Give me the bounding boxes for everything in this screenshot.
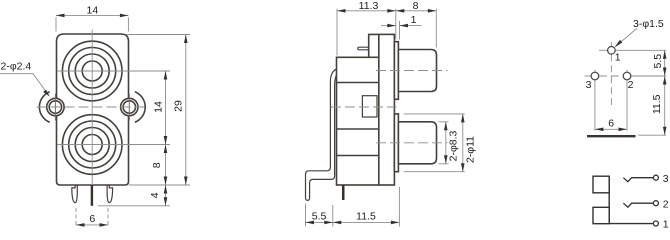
svg-text:11.5: 11.5 bbox=[356, 210, 376, 222]
top barrel phi8.3 bbox=[398, 50, 436, 92]
pin 3 terminal bbox=[653, 175, 658, 180]
housing block bbox=[337, 57, 379, 185]
housing internal line 1 bbox=[337, 82, 379, 84]
body front face bbox=[57, 34, 129, 185]
bottom barrel centerline bbox=[376, 142, 448, 144]
svg-text:2-φ2.4: 2-φ2.4 bbox=[1, 61, 32, 73]
jack body square 1 bbox=[593, 176, 609, 193]
svg-text:2: 2 bbox=[628, 79, 634, 91]
dimension 8 (bottom jack to body bottom) bbox=[151, 145, 168, 186]
mounting bracket leg bbox=[306, 69, 338, 200]
svg-text:29: 29 bbox=[172, 100, 184, 112]
svg-text:3: 3 bbox=[663, 173, 669, 185]
dimension 5.5 bbox=[306, 204, 333, 227]
dimension 14 (jack spacing) bbox=[128, 71, 171, 145]
svg-text:1: 1 bbox=[663, 218, 669, 229]
holes 2-3 centerline bbox=[585, 70, 667, 131]
svg-text:11.5: 11.5 bbox=[651, 94, 663, 114]
svg-text:6: 6 bbox=[89, 213, 95, 225]
dimension 6 (hole spacing) bbox=[595, 118, 627, 132]
svg-text:5.5: 5.5 bbox=[652, 54, 664, 69]
svg-text:14: 14 bbox=[87, 4, 99, 16]
dimension 6 (pin spacing) bbox=[76, 208, 108, 227]
side solder pin bbox=[342, 185, 345, 200]
top RCA jack circles bbox=[57, 41, 128, 101]
dimension 14 (top width) bbox=[56, 4, 128, 31]
mounting boss bbox=[362, 96, 377, 117]
label 2-phi2.4 with leader bbox=[0, 61, 50, 97]
dimension 11.5 (row to edge) bbox=[638, 76, 667, 135]
svg-text:4: 4 bbox=[149, 192, 161, 198]
dimension 2-phi8.3 bbox=[439, 122, 460, 164]
connector vertical line bbox=[608, 176, 610, 224]
svg-text:11.3: 11.3 bbox=[359, 0, 379, 12]
center pin bbox=[91, 185, 93, 206]
dimension 11.3 bbox=[337, 0, 396, 56]
svg-text:2-φ8.3: 2-φ8.3 bbox=[447, 130, 459, 161]
side mid centerline bbox=[331, 106, 397, 108]
jack body square 2 bbox=[593, 207, 609, 223]
pin 2 terminal bbox=[653, 201, 658, 206]
svg-text:3-φ1.5: 3-φ1.5 bbox=[633, 18, 664, 30]
dimension 29 (body height) bbox=[126, 35, 190, 186]
dimension 1 (disc thickness) bbox=[381, 14, 422, 40]
bottom jack centerline bbox=[57, 144, 128, 146]
bottom phi11 disc bbox=[394, 114, 398, 172]
housing internal line 3 bbox=[337, 155, 379, 157]
left outer pin bbox=[72, 185, 78, 202]
dimension 5.5 (hole1 to row) bbox=[652, 50, 667, 76]
bottom RCA jack circles bbox=[57, 115, 128, 175]
svg-text:14: 14 bbox=[153, 101, 165, 113]
svg-text:6: 6 bbox=[608, 118, 614, 130]
mounting ear right bbox=[135, 92, 145, 123]
top phi11 disc bbox=[394, 42, 398, 100]
pcb edge thick line bbox=[587, 135, 636, 137]
front flange plate bbox=[379, 34, 395, 185]
housing internal line 2 bbox=[337, 128, 379, 130]
wire to pin 1 bbox=[609, 223, 653, 225]
svg-text:3: 3 bbox=[586, 79, 592, 91]
mid centerline through ears bbox=[37, 106, 148, 108]
svg-text:2: 2 bbox=[663, 198, 669, 210]
dimension 8 (barrel length) bbox=[396, 0, 437, 48]
svg-text:2-φ11: 2-φ11 bbox=[465, 136, 477, 163]
hole 1 crosshair bbox=[599, 42, 666, 105]
vertical centerline bbox=[91, 30, 93, 186]
switch contact pin 3 bbox=[623, 178, 653, 182]
dimension 4 (pin length) bbox=[98, 185, 170, 206]
solder lug pin 1 bbox=[358, 47, 369, 50]
svg-text:8: 8 bbox=[151, 162, 163, 168]
svg-text:5.5: 5.5 bbox=[312, 210, 327, 222]
label 3-phi1.5 with leader bbox=[614, 18, 664, 47]
svg-text:8: 8 bbox=[413, 0, 419, 12]
svg-text:1: 1 bbox=[615, 51, 621, 63]
hole 1 bbox=[608, 47, 616, 55]
top jack centerline bbox=[57, 70, 128, 72]
hole 2 bbox=[623, 72, 631, 80]
right outer pin bbox=[107, 185, 113, 202]
bottom barrel phi8.3 bbox=[398, 122, 436, 164]
dimension 11.5 bbox=[333, 187, 400, 227]
svg-text:1: 1 bbox=[411, 14, 417, 26]
dimension 2-phi11 bbox=[404, 114, 477, 172]
ear hole left rings bbox=[47, 94, 64, 121]
housing top step bbox=[369, 34, 379, 57]
pin 1 terminal bbox=[653, 221, 658, 226]
top barrel centerline bbox=[376, 70, 448, 72]
switch contact pin 2 bbox=[623, 203, 653, 207]
ear hole right rings bbox=[121, 94, 138, 121]
hole 3 bbox=[591, 72, 599, 80]
mounting ear left bbox=[39, 92, 49, 123]
